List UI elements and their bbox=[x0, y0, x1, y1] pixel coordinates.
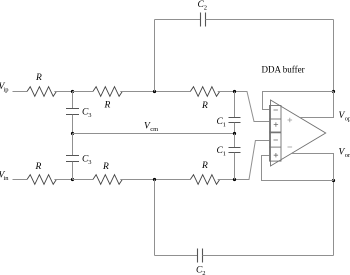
svg-text:op: op bbox=[345, 116, 350, 123]
wire: Vip input lead bbox=[13, 91, 28, 93]
wire: Vin input lead bbox=[13, 179, 28, 181]
wire: Vcm line bbox=[73, 133, 235, 135]
wire: bottom C2 loop horizontal right part bbox=[203, 255, 334, 257]
svg-text:R: R bbox=[201, 101, 208, 111]
wire: R to R through node E bbox=[120, 179, 190, 181]
pin minus 2 bbox=[274, 139, 278, 141]
wire: top C2 loop horizontal right part bbox=[206, 19, 334, 21]
wire: top C2 loop left vertical bbox=[154, 20, 156, 92]
svg-text:ip: ip bbox=[4, 87, 9, 94]
svg-text:DDA buffer: DDA buffer bbox=[262, 65, 305, 75]
capacitor C3 (upper) bbox=[66, 109, 79, 115]
capacitor C3 (lower) bbox=[66, 156, 79, 162]
svg-text:cm: cm bbox=[150, 126, 158, 133]
svg-text:in: in bbox=[4, 175, 10, 182]
polarity plus (inside triangle) bbox=[288, 118, 293, 123]
svg-text:on: on bbox=[345, 152, 350, 159]
input box 2 (bottom differential pair) bbox=[270, 133, 282, 161]
node I (Vop feedback node) bbox=[332, 90, 335, 93]
wire: left C3 column upper segment bbox=[72, 92, 74, 109]
svg-text:1: 1 bbox=[223, 122, 226, 129]
wire: lower C1 to node F bbox=[234, 153, 236, 180]
svg-text:2: 2 bbox=[202, 270, 205, 275]
wire: top C2 loop horizontal left part bbox=[155, 19, 201, 21]
wire: node D to R bbox=[73, 179, 93, 181]
svg-text:3: 3 bbox=[88, 112, 91, 119]
wire: bottom loop right vertical up to Von node bbox=[333, 181, 335, 256]
wire: lower C3 to row2 node D bbox=[72, 162, 74, 180]
node A (row1, C3 tap) bbox=[71, 90, 74, 93]
capacitor C1 (lower) bbox=[229, 148, 241, 153]
node G (Vcm left) bbox=[71, 132, 74, 135]
pin minus 1 bbox=[274, 109, 278, 111]
node J (Von feedback node) bbox=[332, 179, 335, 182]
node B (row1, top C2 loop tap) bbox=[153, 90, 156, 93]
wire: C3 to Vcm node bbox=[72, 115, 74, 134]
node F (row2, C1 column bottom) bbox=[233, 178, 236, 181]
wire: node A to R bbox=[73, 91, 93, 93]
capacitor C1 (upper) bbox=[229, 118, 241, 123]
capacitor C2 (bottom) bbox=[198, 249, 203, 263]
wire: R to node A bbox=[54, 91, 72, 93]
node C (row1, C1 column top) bbox=[233, 90, 236, 93]
input box 1 (top differential pair) bbox=[270, 106, 282, 133]
svg-text:R: R bbox=[104, 101, 111, 111]
wire: top loop right vertical down to Vop node bbox=[333, 20, 335, 92]
wire: bottom feedback into +2 input bbox=[262, 156, 334, 181]
wire: R to R through node B bbox=[120, 91, 190, 93]
wire: C1 to Vcm right node bbox=[234, 123, 236, 134]
node E (row2, bottom C2 loop tap) bbox=[153, 178, 156, 181]
wire: bottom C2 loop horizontal left part bbox=[155, 255, 198, 257]
svg-text:R: R bbox=[102, 162, 109, 172]
polarity minus (inside triangle) bbox=[288, 146, 293, 148]
resistor R (row1 left) bbox=[27, 87, 56, 97]
svg-text:R: R bbox=[35, 73, 42, 83]
op-amp U1 DDA triangle bbox=[271, 100, 326, 166]
pin plus 1 bbox=[274, 122, 278, 126]
wire: C1 column from node C down bbox=[234, 92, 236, 118]
wire: Vop output from hypotenuse bbox=[300, 92, 334, 118]
resistor R (row1 right) bbox=[190, 87, 219, 97]
wire: R to node C and slant into +1 input bbox=[218, 92, 270, 122]
wire: Vcm node to lower C1 bbox=[234, 134, 236, 148]
svg-text:2: 2 bbox=[204, 5, 207, 12]
resistor R (row1 middle) bbox=[93, 87, 122, 97]
wire: top feedback into -1 input bbox=[263, 92, 334, 110]
resistor R (row2 left) bbox=[27, 175, 56, 185]
svg-text:R: R bbox=[35, 162, 42, 172]
node H (Vcm right) bbox=[233, 132, 236, 135]
resistor R (row2 middle) bbox=[93, 175, 122, 185]
wire: R to node F and slant into -2 input bbox=[218, 141, 270, 180]
svg-text:3: 3 bbox=[88, 159, 91, 166]
wire: Vcm node to lower C3 bbox=[72, 134, 74, 156]
wire: Von output from hypotenuse bbox=[291, 154, 333, 181]
capacitor C2 (top) bbox=[201, 13, 206, 27]
node D (row2, C3 tap) bbox=[71, 178, 74, 181]
wire: R to node D bbox=[54, 179, 72, 181]
svg-text:R: R bbox=[201, 161, 208, 171]
wire: bottom C2 loop left vertical bbox=[154, 180, 156, 256]
svg-text:1: 1 bbox=[223, 151, 226, 158]
pin plus 2 bbox=[274, 153, 278, 157]
resistor R (row2 right) bbox=[190, 175, 219, 185]
